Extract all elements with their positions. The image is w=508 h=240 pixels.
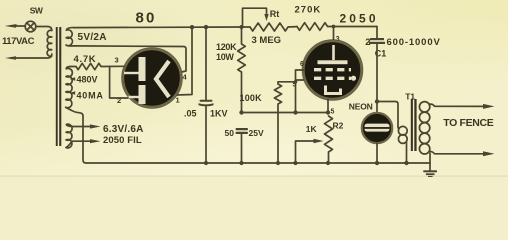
svg-text:120K: 120K bbox=[216, 42, 237, 52]
tube 80 plate lead upper bbox=[124, 72, 139, 74]
resistor 4.7K bbox=[71, 63, 125, 69]
wire: B+ drop to pin 1 bbox=[177, 27, 193, 95]
transformer 5V/2A winding bbox=[66, 28, 74, 46]
svg-text:480V: 480V bbox=[77, 75, 98, 85]
svg-text:4: 4 bbox=[183, 73, 188, 82]
tube 2050 plate bar bbox=[318, 60, 348, 64]
tube 2050 cathode bbox=[326, 86, 341, 94]
svg-text:3: 3 bbox=[115, 56, 119, 65]
svg-text:10W: 10W bbox=[216, 52, 234, 62]
node dot T1 primary ground bbox=[404, 161, 408, 165]
svg-text:117VAC: 117VAC bbox=[2, 36, 35, 47]
svg-text:6: 6 bbox=[300, 61, 304, 68]
wire: T1 primary branch bbox=[377, 102, 398, 128]
wire: AC hot lead with arrow bbox=[5, 24, 25, 28]
node dot bias rail cathode bbox=[326, 110, 330, 114]
neon lamp NE bbox=[362, 113, 392, 143]
R2 wiper arm to ground bbox=[296, 139, 324, 163]
tube 80 plate bar lower bbox=[139, 85, 146, 104]
wire: fence ground lead with arrow bbox=[429, 151, 494, 156]
node dot T1 branch bbox=[375, 99, 379, 103]
node junction dot on B+ rail at .05 branch bbox=[204, 25, 208, 29]
transformer T1 primary loops bbox=[398, 126, 407, 163]
capacitor .05 1KV branch wire upper bbox=[205, 27, 207, 99]
node dot neon ground bbox=[375, 161, 379, 165]
node dot ground rail at R2 bottom bbox=[326, 161, 330, 165]
transformer HV winding 480V/40MA bbox=[66, 66, 73, 109]
capacitor .05 1KV plates bbox=[199, 100, 214, 107]
tube 80 plate bar upper bbox=[139, 57, 146, 81]
tube 80 plate lead lower bbox=[129, 96, 139, 98]
wire: grid pin 6 stub and grid bus bbox=[296, 70, 305, 113]
wire: neon bottom to ground rail bbox=[376, 143, 378, 163]
wire: fence hot lead with arrow bbox=[429, 104, 494, 109]
480V tap arrow bbox=[70, 77, 76, 81]
svg-text:40MA: 40MA bbox=[77, 90, 104, 100]
switch SW bbox=[25, 21, 36, 32]
potentiometer R2 1K bbox=[325, 116, 333, 163]
node dot ground rail at R2 wiper bbox=[293, 161, 297, 165]
wire: plate bracket tying pins 3 and 2 bbox=[110, 66, 128, 98]
svg-text:NEON: NEON bbox=[349, 101, 373, 111]
transformer T1 core bbox=[411, 99, 417, 151]
tube 2050 grid cap dot bbox=[351, 76, 356, 81]
node junction dot on B+ rail bbox=[190, 25, 194, 29]
tube 2050 grid 1 dashes bbox=[314, 68, 351, 71]
6.3V lead arrow top bbox=[72, 124, 101, 128]
svg-text:4.7K: 4.7K bbox=[74, 54, 97, 65]
wire: cathode stub down bbox=[327, 99, 329, 112]
svg-text:5: 5 bbox=[331, 109, 335, 116]
svg-text:1: 1 bbox=[176, 96, 180, 105]
wire: grid pin 5 stub bbox=[296, 79, 304, 81]
svg-text:1K: 1K bbox=[306, 124, 318, 134]
node dot bias rail grid bbox=[293, 110, 297, 114]
svg-text:R2: R2 bbox=[333, 121, 344, 131]
svg-text:1KV: 1KV bbox=[210, 109, 228, 119]
resistor 100K with grid connection bbox=[274, 82, 295, 163]
wire: AC neutral lead with arrow bbox=[5, 54, 52, 60]
svg-text:80: 80 bbox=[136, 10, 157, 27]
node dot ground rail at 50uF bbox=[239, 161, 243, 165]
wire: ground stub bbox=[429, 153, 431, 171]
tube 2050 plate lead internal bbox=[332, 45, 335, 60]
resistor 3 MEG bbox=[250, 23, 297, 31]
svg-text:SW: SW bbox=[30, 6, 44, 16]
svg-text:T1: T1 bbox=[405, 91, 415, 101]
svg-text:Rt: Rt bbox=[270, 9, 280, 19]
40MA tap arrow bbox=[70, 91, 76, 95]
resistor 120K 10W bbox=[238, 27, 246, 113]
svg-text:5V/2A: 5V/2A bbox=[78, 32, 107, 43]
node dot bias rail left bbox=[239, 110, 243, 114]
wire: 2050 plate lead bbox=[333, 27, 335, 43]
transformer 6.3V winding bbox=[66, 124, 72, 148]
node dot at 2050 plate on rail bbox=[332, 25, 336, 29]
wire: C1 branch from rail corner bbox=[376, 27, 378, 39]
node dot ground rail at 100K bbox=[276, 161, 280, 165]
svg-text:600-1000V: 600-1000V bbox=[387, 37, 441, 48]
node junction dot at 120K branch bbox=[240, 25, 244, 29]
tube 2050 envelope bbox=[302, 40, 363, 101]
svg-text:25V: 25V bbox=[249, 128, 264, 138]
node dot ground rail at .05 bbox=[204, 161, 208, 165]
svg-text:2050 FIL: 2050 FIL bbox=[103, 135, 142, 146]
wire: B+ rail from 5V winding to C1 corner bbox=[74, 26, 250, 29]
svg-text:2: 2 bbox=[365, 37, 370, 48]
tube 80 envelope bbox=[122, 48, 183, 109]
rheostat Rt tap box bbox=[243, 8, 269, 27]
wire: bias rail bbox=[242, 112, 329, 114]
tube 2050 grid 2 dashes bbox=[314, 77, 351, 80]
transformer T primary winding bbox=[47, 30, 52, 56]
wire: C1 down to neon top bbox=[376, 44, 378, 113]
svg-text:3 MEG: 3 MEG bbox=[252, 35, 282, 46]
capacitor 50/25V electrolytic bbox=[236, 128, 249, 163]
svg-text:100K: 100K bbox=[240, 93, 263, 103]
wire: switch to transformer primary bbox=[36, 27, 52, 31]
tube 80 filament chevron bbox=[156, 61, 169, 97]
ground symbol bbox=[423, 170, 437, 177]
capacitor C1 plates bbox=[369, 38, 385, 44]
svg-text:6.3V/.6A: 6.3V/.6A bbox=[103, 124, 144, 135]
svg-text:TO FENCE: TO FENCE bbox=[443, 117, 493, 129]
hairline page rule bbox=[0, 176, 508, 177]
wire: 5V bottom lead over tube to pin 4 bbox=[74, 46, 186, 72]
svg-text:.05: .05 bbox=[184, 109, 197, 119]
6.3V lead arrow bottom bbox=[72, 139, 101, 143]
transformer T1 secondary winding bbox=[419, 102, 429, 154]
resistor 270K bbox=[297, 23, 377, 31]
svg-text:270K: 270K bbox=[295, 4, 322, 15]
svg-text:2050: 2050 bbox=[340, 12, 379, 26]
transformer T core bbox=[56, 27, 62, 146]
capacitor .05 branch wire lower bbox=[205, 106, 207, 163]
wire: HV winding return to ground rail bbox=[71, 110, 431, 163]
node dot 100K grid join bbox=[294, 80, 298, 84]
svg-text:50: 50 bbox=[225, 128, 235, 138]
